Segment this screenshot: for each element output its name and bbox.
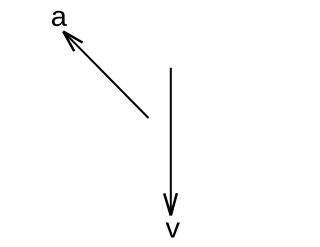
svg-text:v: v bbox=[166, 213, 181, 245]
wire: velocity vector shaft bbox=[170, 68, 172, 216]
arrowhead of vector v bbox=[164, 193, 177, 215]
wire: acceleration vector shaft bbox=[63, 31, 148, 118]
svg-text:a: a bbox=[51, 1, 68, 33]
arrowhead of vector a bbox=[63, 31, 82, 51]
